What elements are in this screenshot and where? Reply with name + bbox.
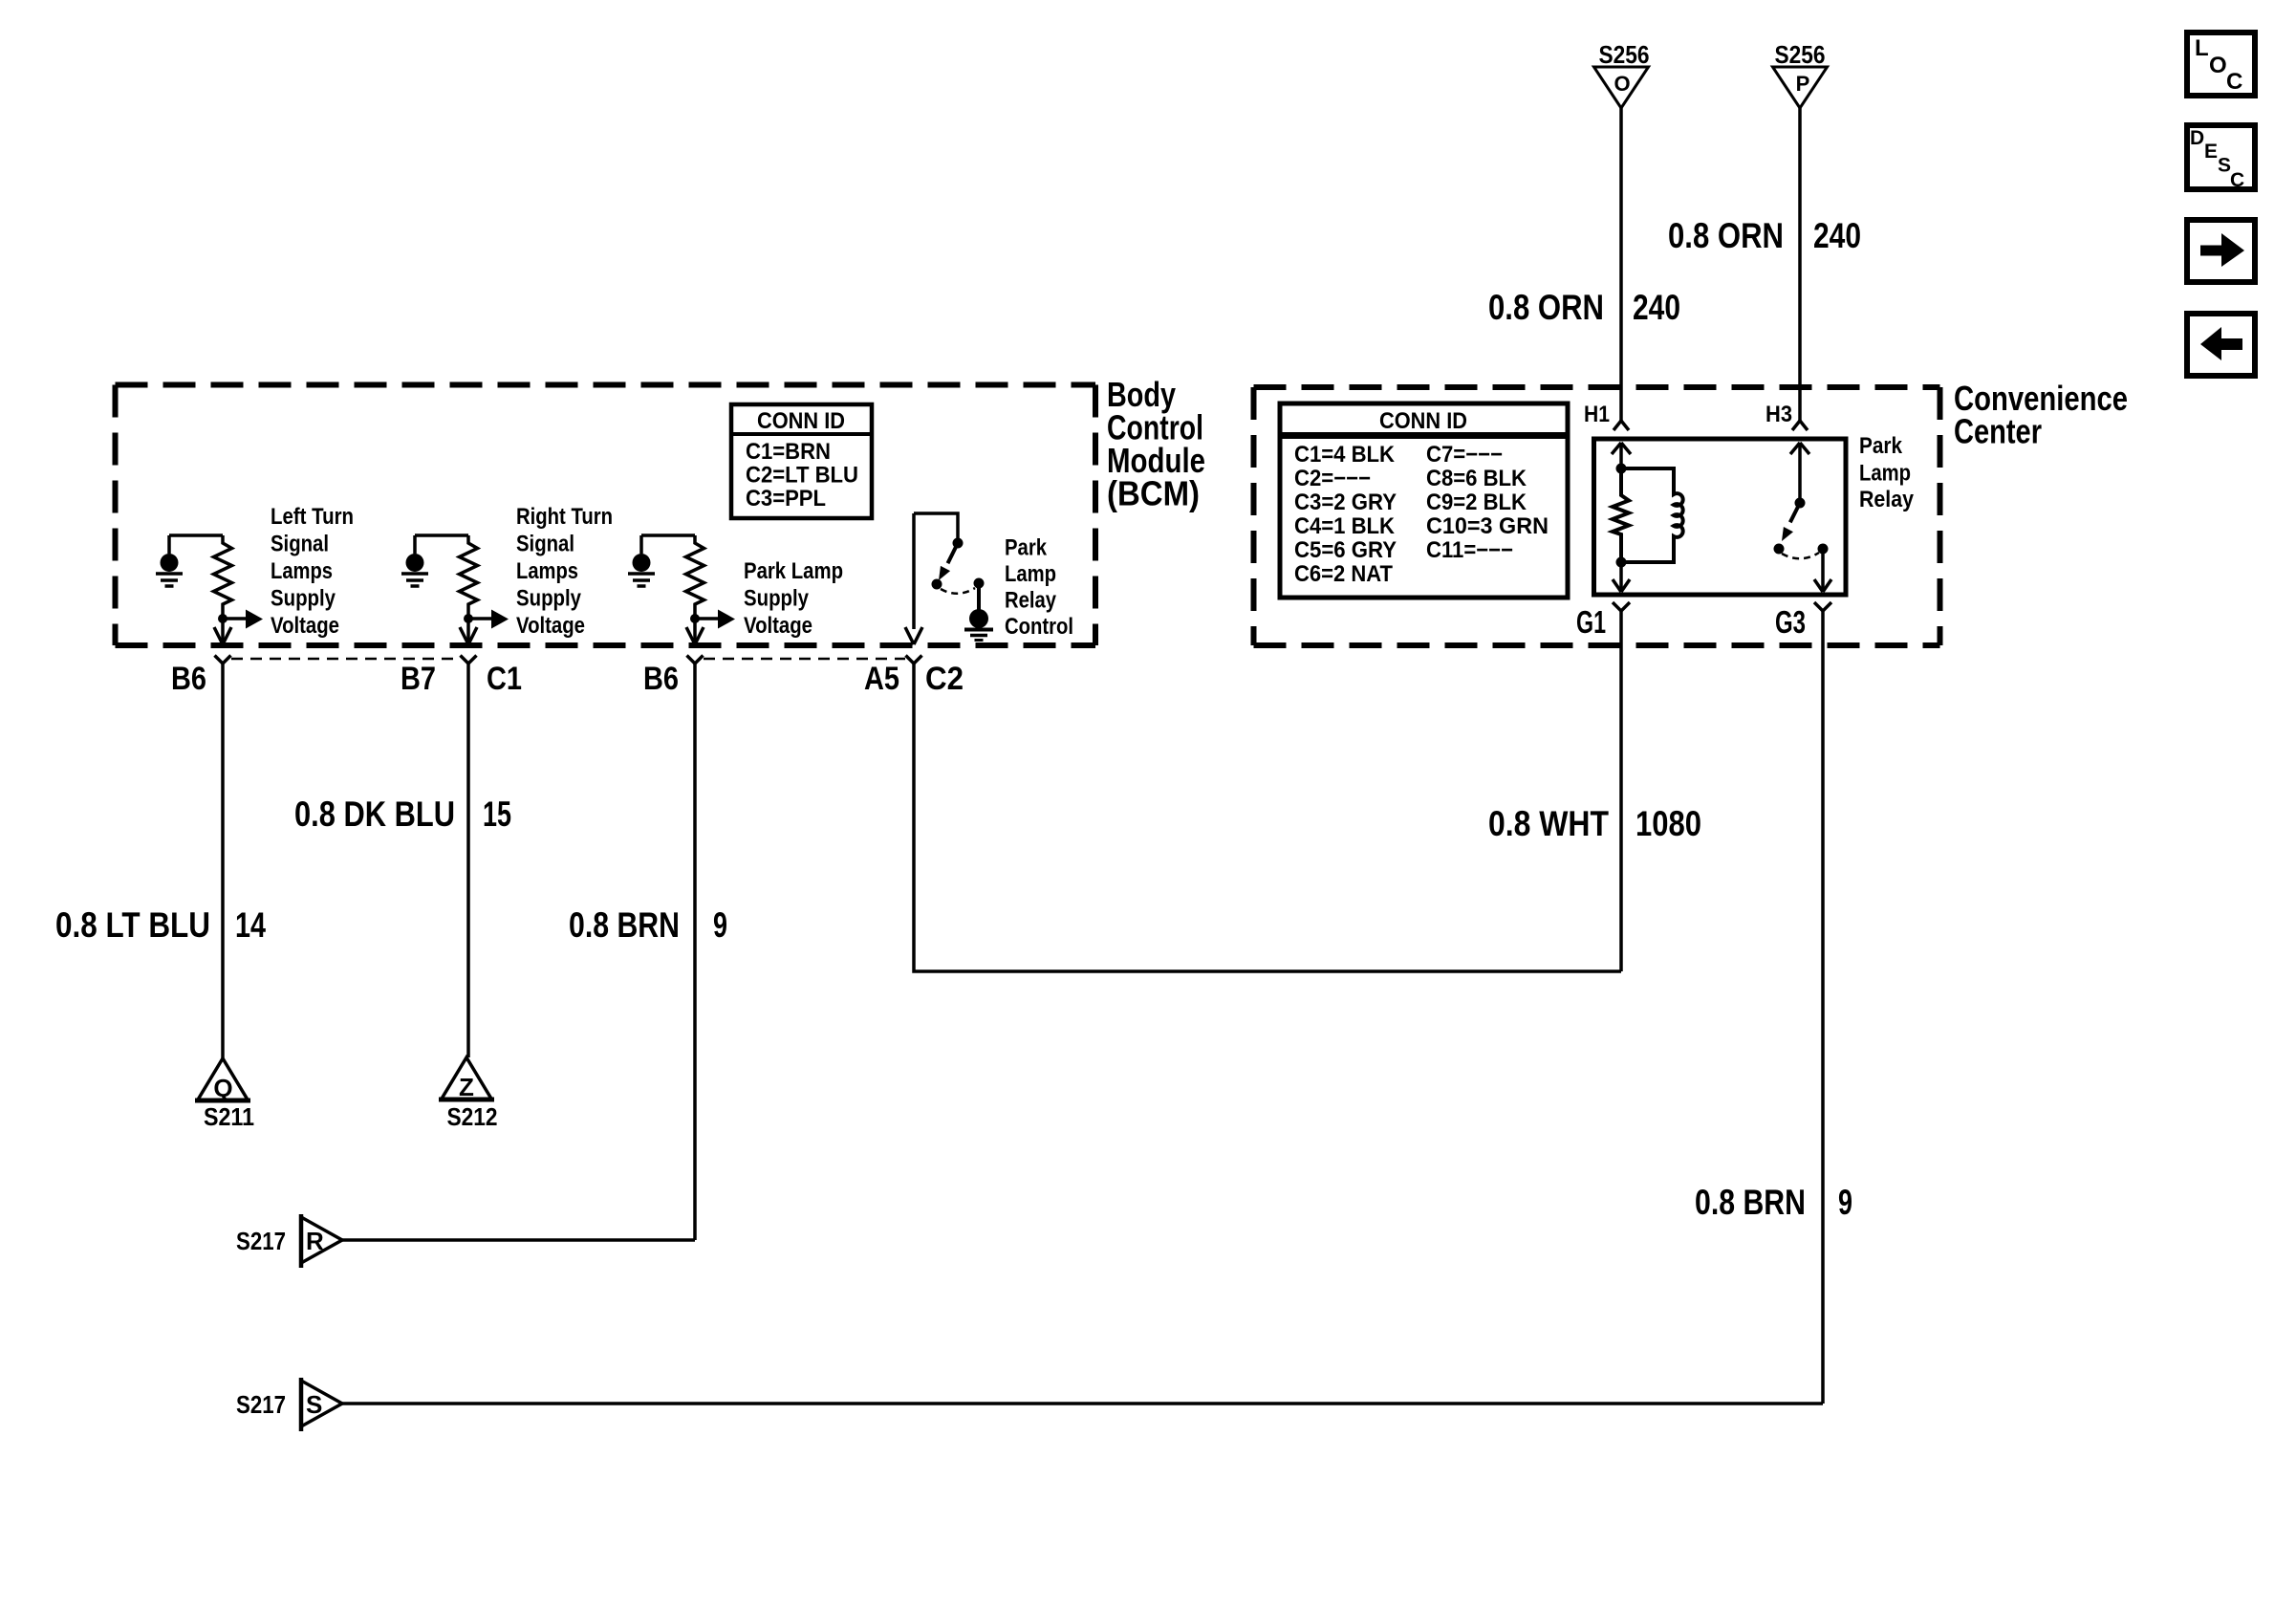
svg-text:B6: B6 [643, 661, 679, 697]
svg-text:14: 14 [235, 905, 266, 945]
svg-text:(BCM): (BCM) [1107, 474, 1200, 513]
svg-text:Supply: Supply [744, 586, 810, 612]
svg-text:S256: S256 [1775, 40, 1826, 69]
svg-text:A5: A5 [864, 661, 899, 697]
svg-text:0.8 ORN: 0.8 ORN [1668, 216, 1784, 255]
svg-text:1080: 1080 [1635, 804, 1701, 843]
svg-text:Park: Park [1005, 535, 1048, 561]
svg-text:S212: S212 [447, 1102, 498, 1131]
svg-text:B7: B7 [401, 661, 436, 697]
svg-text:240: 240 [1633, 288, 1680, 327]
svg-text:Lamps: Lamps [271, 558, 333, 584]
svg-text:0.8 BRN: 0.8 BRN [569, 905, 680, 945]
svg-text:C1: C1 [487, 661, 522, 697]
svg-text:H1: H1 [1584, 402, 1610, 427]
svg-text:C10=3 GRN: C10=3 GRN [1426, 513, 1549, 539]
svg-text:S: S [2218, 155, 2231, 177]
svg-text:S: S [306, 1390, 322, 1419]
svg-text:Voltage: Voltage [744, 613, 812, 639]
svg-text:0.8 LT BLU: 0.8 LT BLU [55, 905, 210, 945]
svg-text:Supply: Supply [516, 586, 582, 612]
svg-text:CONN ID: CONN ID [757, 408, 845, 434]
svg-text:S211: S211 [204, 1102, 254, 1131]
svg-text:15: 15 [483, 795, 511, 834]
svg-text:Lamp: Lamp [1005, 561, 1056, 587]
svg-text:D: D [2190, 127, 2204, 149]
svg-text:C9=2 BLK: C9=2 BLK [1426, 490, 1527, 515]
svg-text:C3=2 GRY: C3=2 GRY [1294, 490, 1397, 515]
svg-text:B6: B6 [171, 661, 206, 697]
svg-text:Right Turn: Right Turn [516, 504, 613, 530]
svg-text:Control: Control [1005, 614, 1073, 640]
svg-text:P: P [1796, 72, 1810, 96]
svg-text:H3: H3 [1765, 402, 1792, 427]
svg-text:G3: G3 [1775, 604, 1806, 640]
svg-text:Center: Center [1954, 412, 2042, 451]
svg-text:Z: Z [459, 1073, 474, 1101]
svg-text:O: O [2209, 53, 2227, 78]
svg-text:G1: G1 [1576, 604, 1606, 640]
svg-text:Relay: Relay [1859, 487, 1915, 512]
svg-text:C7=−−−: C7=−−− [1426, 442, 1503, 468]
svg-text:Signal: Signal [271, 532, 329, 557]
svg-text:9: 9 [713, 905, 727, 945]
svg-text:0.8 WHT: 0.8 WHT [1488, 804, 1609, 843]
svg-text:L: L [2195, 35, 2209, 61]
svg-text:Lamp: Lamp [1859, 461, 1911, 487]
svg-text:C1=4 BLK: C1=4 BLK [1294, 442, 1396, 468]
svg-text:Voltage: Voltage [271, 613, 339, 639]
svg-text:Q: Q [213, 1074, 232, 1102]
svg-text:0.8 DK BLU: 0.8 DK BLU [294, 795, 455, 834]
svg-text:E: E [2204, 141, 2218, 163]
svg-text:Lamps: Lamps [516, 558, 578, 584]
svg-text:C3=PPL: C3=PPL [746, 486, 826, 512]
svg-text:S217: S217 [236, 1390, 286, 1419]
svg-text:C2=LT BLU: C2=LT BLU [746, 463, 858, 489]
svg-text:C5=6 GRY: C5=6 GRY [1294, 537, 1397, 563]
svg-text:S217: S217 [236, 1227, 286, 1255]
svg-text:0.8 BRN: 0.8 BRN [1695, 1183, 1806, 1222]
svg-text:Left Turn: Left Turn [271, 504, 354, 530]
svg-text:Park: Park [1859, 433, 1903, 459]
svg-text:C: C [2230, 169, 2244, 191]
svg-text:Voltage: Voltage [516, 613, 585, 639]
svg-text:Signal: Signal [516, 532, 574, 557]
svg-text:Supply: Supply [271, 586, 336, 612]
svg-text:C: C [2226, 69, 2242, 95]
svg-text:C4=1 BLK: C4=1 BLK [1294, 513, 1396, 539]
svg-text:S256: S256 [1599, 40, 1650, 69]
svg-text:C1=BRN: C1=BRN [746, 439, 831, 465]
svg-text:9: 9 [1838, 1183, 1852, 1222]
svg-text:O: O [1614, 72, 1630, 96]
svg-text:C11=−−−: C11=−−− [1426, 537, 1513, 563]
svg-text:C6=2 NAT: C6=2 NAT [1294, 561, 1393, 587]
svg-text:240: 240 [1813, 216, 1861, 255]
svg-text:Relay: Relay [1005, 588, 1057, 614]
svg-text:Park Lamp: Park Lamp [744, 558, 843, 584]
svg-text:C2: C2 [925, 661, 964, 697]
svg-text:R: R [306, 1227, 324, 1255]
svg-text:C2=−−−: C2=−−− [1294, 466, 1371, 491]
svg-text:CONN ID: CONN ID [1379, 408, 1467, 434]
svg-text:0.8 ORN: 0.8 ORN [1488, 288, 1604, 327]
svg-text:C8=6 BLK: C8=6 BLK [1426, 466, 1527, 491]
